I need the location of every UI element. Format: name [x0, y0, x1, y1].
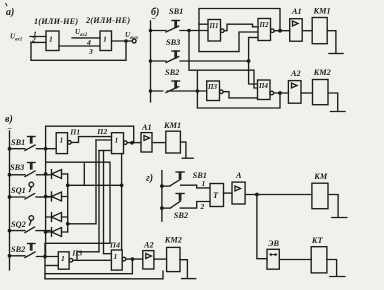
svg-text:П2: П2 — [259, 21, 269, 29]
svg-text:SB2: SB2 — [165, 68, 179, 77]
svg-text:1(ИЛИ-НЕ): 1(ИЛИ-НЕ) — [34, 17, 78, 26]
svg-text:1: 1 — [114, 252, 118, 261]
svg-text:КМ: КМ — [313, 172, 328, 181]
svg-text:А2: А2 — [143, 241, 154, 250]
svg-text:1: 1 — [202, 179, 206, 188]
svg-text:А: А — [235, 171, 242, 180]
svg-text:КМ1: КМ1 — [163, 121, 181, 130]
svg-text:КТ: КТ — [311, 236, 324, 245]
svg-text:П3: П3 — [207, 83, 217, 91]
svg-text:1: 1 — [103, 35, 107, 44]
svg-text:SB2: SB2 — [11, 245, 25, 254]
svg-text:−: − — [7, 124, 12, 133]
svg-text:SB2: SB2 — [174, 211, 188, 220]
svg-text:4: 4 — [86, 38, 91, 47]
svg-text:SB3: SB3 — [10, 163, 24, 172]
svg-text:3: 3 — [88, 47, 93, 56]
svg-text:SQ2: SQ2 — [11, 220, 26, 229]
svg-text:П1: П1 — [209, 22, 219, 30]
svg-text:2(ИЛИ-НЕ): 2(ИЛИ-НЕ) — [85, 16, 130, 25]
svg-text:а): а) — [6, 7, 14, 18]
svg-text:А2: А2 — [290, 69, 301, 78]
svg-text:SB3: SB3 — [166, 38, 180, 47]
svg-text:П4: П4 — [258, 82, 268, 90]
svg-text:КМ1: КМ1 — [313, 7, 331, 16]
svg-text:А1: А1 — [291, 7, 302, 16]
svg-text:КМ2: КМ2 — [164, 236, 182, 245]
svg-text:П1: П1 — [69, 128, 80, 137]
svg-text:SB1: SB1 — [169, 7, 183, 16]
svg-text:ЭВ: ЭВ — [268, 239, 279, 248]
svg-text:−: − — [151, 14, 156, 23]
svg-text:2: 2 — [31, 35, 36, 44]
svg-text:1: 1 — [115, 136, 119, 145]
svg-text:2: 2 — [200, 202, 205, 211]
svg-text:А1: А1 — [141, 123, 152, 132]
svg-text:SQ1: SQ1 — [11, 186, 26, 195]
svg-text:П4: П4 — [109, 240, 120, 249]
svg-text:г): г) — [146, 173, 153, 184]
svg-text:КМ2: КМ2 — [313, 68, 331, 77]
svg-text:П3: П3 — [71, 249, 82, 258]
svg-text:SB1: SB1 — [11, 138, 25, 147]
svg-text:1: 1 — [49, 35, 53, 44]
svg-text:П2: П2 — [96, 127, 107, 136]
svg-text:1: 1 — [60, 136, 64, 145]
svg-text:1: 1 — [61, 254, 65, 263]
